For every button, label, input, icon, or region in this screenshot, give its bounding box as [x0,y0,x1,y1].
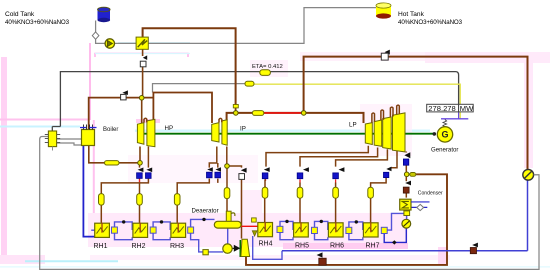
wire: hot salt header y=56.5 with right drop to circulating circle [304,57,528,170]
heater RH3 [171,223,186,238]
wire: node to feedpump turbine valve branch [227,166,242,168]
wire: HX bottom down through valve to steam node [142,50,144,57]
wire: LP extraction drops to RH4..RH7 (4) [264,199,266,223]
condenser C1 [400,199,430,215]
valve diamond V1 [92,32,99,39]
pink near turbines [136,119,160,123]
wire: LP extraction drops to RH4..RH7 (15) [370,199,372,223]
marker on RH7 drain U [392,240,397,244]
wire: hot reheat: HX top up right down to node 236 [143,28,236,105]
wire: crossover HP to IP at y=92.5 [153,93,212,124]
wire: boiler bottom loop to HP exhaust y=162.8 [89,146,140,163]
riser orifice RH3 [174,194,180,206]
wire: RH3 to deaerator [191,219,215,227]
wire: IP last stage to deaerator feed (2) [226,168,228,187]
svg-text:Deaerator: Deaerator [192,208,219,215]
riser orifice deaerator [224,188,230,199]
wire: signal ETA line (dark gray) from economizer up and right to MW display (2) [52,127,60,131]
valve on bottom brown line (dark red) [317,252,327,265]
wire: hot reheat: HX top up right down to node 236 (2) [235,108,237,111]
wire: deaerator to pump to RH3-side [227,228,229,244]
economizer block B1 [45,131,60,147]
svg-text:Condenser: Condenser [418,191,443,197]
heater RH7 [363,222,378,237]
heater RH6 [328,222,343,237]
wire: LP extraction drops to RH4..RH7 (11) [335,183,337,188]
wire: LP exhaust to condenser [405,152,407,153]
IP extraction valves [207,167,222,178]
wire: node to feedpump turbine valve branch (2) [241,180,243,239]
wire: green shaft [137,133,434,135]
sensor pill right of LP exhaust node [410,173,416,177]
wire: green shaft feedpump turbine [239,240,241,257]
wire: deaerator to pump to RH3-side (2) [191,233,223,252]
wire: IP extraction drops (4) [217,163,219,183]
svg-text:HP: HP [165,125,174,132]
feedpump turbine FPT [234,239,250,256]
wire: node down into HP stage1 [141,100,143,124]
wire: LP extraction drops to RH4..RH7 (7) [299,183,301,188]
cyan lines [0,126,80,128]
wire: purple feed train RH1-RH2-RH3 [91,229,95,231]
wire: purple feed train RH1-RH2-RH3 (2) [115,222,133,240]
svg-text:Generator: Generator [431,147,458,154]
svg-text:RH4: RH4 [259,241,273,248]
wire: HP extraction drops (5) [100,205,102,223]
svg-text:RH7: RH7 [366,243,380,250]
svg-text:MW: MW [460,104,474,113]
condenser inlet valve (dark red) [403,181,411,194]
svg-text:RH1: RH1 [94,243,108,250]
deaerator pump P2 [223,244,232,253]
wire: LP extraction drops to RH4..RH7 [266,146,368,167]
wire: IP last stage to deaerator feed (3) [226,199,228,212]
wire: condensate header y=250.8 (2) [477,250,528,252]
condensate pump P3 [402,219,411,228]
wire: purple electric line at generator (2) [458,112,460,119]
wire: LP extraction drops to RH4..RH7 (12) [335,199,337,223]
turbine IP [212,118,228,145]
wire: condenser small blue stubs [411,206,427,208]
wire: signal ETA line (dark gray) from economizer up and right to MW display [60,72,458,127]
svg-text:RH5: RH5 [295,243,309,250]
wire: LP extraction drops to RH4..RH7 (2) [264,179,267,187]
svg-text:RH6: RH6 [330,243,344,250]
wire: purple feed train RH4..RH7 (3) [349,222,363,240]
pink glow around hot salt line right [425,52,550,63]
wire: IP extraction drops [209,147,217,168]
valve FV2 on hot salt line [381,50,390,61]
wire: LP extraction drops to RH4..RH7 (14) [371,178,387,188]
pink haze behind RH row [88,213,408,247]
wire: measurement frame gray loop left/bottom/right [40,137,539,270]
cold tank T1 [98,7,111,22]
riser orifice RH5 [297,187,303,198]
small connector square on pump suction [203,250,208,255]
HP extraction valves Q1 Q2 [137,168,153,179]
svg-text:G: G [441,130,448,140]
wire: LP extraction drops to RH4..RH7 (10) [335,179,337,182]
wire: economizer to boiler gray links [57,139,82,145]
sensor pill S3 on admission line [252,111,263,116]
wire: condensate header y=250.8 [282,250,470,252]
pink horizontal upper-left [0,119,90,121]
riser orifice RH1 [99,194,105,206]
LP extraction valves RH4..RH6 [262,167,344,179]
wire: boiler steam header y=97.6 (2) [126,97,153,99]
riser orifice RH7 [368,187,374,198]
wire: signal yellow line from sensor2 to generator column [153,84,246,93]
svg-text:RH3: RH3 [170,243,184,250]
valve FV1 under HX [140,55,147,66]
RH7 extraction valve [384,167,392,178]
wire: IP extraction drops (2) [177,179,209,194]
deaerator D1 [214,211,241,228]
wire: HP extraction drops [139,163,141,168]
wire: HP extraction drops (2) [147,147,149,168]
wire: RH7 drain U to condensate pump [384,228,406,242]
wire: green shaft feedpump turbine (2) [232,247,235,249]
wire: boiler steam header y=97.6 [89,98,121,130]
condenser level diamond [417,204,424,210]
heater RH4 [258,222,273,237]
pink bracket under HX [95,53,188,57]
svg-text:278.278: 278.278 [428,104,455,113]
svg-text:ETA= 0.412: ETA= 0.412 [252,64,283,70]
wire: circulating circle down to header [527,180,529,251]
wire: cold tank down to diamond valve and pump (gray) [95,21,97,33]
riser orifice RH6 [333,187,339,198]
wire: purple feed train RH4..RH7 (2) [315,221,328,239]
wire: HP extraction drops (3) [139,179,141,183]
wire: signal yellow line from sensor2 to generator column (2) [254,84,460,119]
wire: LP extraction drops to RH4..RH7 (5) [300,148,378,167]
riser orifice RH2 [137,194,143,206]
svg-text:40%KNO3+60%NaNO3: 40%KNO3+60%NaNO3 [5,19,70,26]
wire: purple feed train RH4..RH7 [280,221,293,239]
svg-text:Boiler: Boiler [103,127,118,133]
svg-text:RH2: RH2 [132,243,146,250]
pink band under RH5-7 row [283,243,408,249]
wire: HP extraction drops (6) [139,182,141,193]
svg-text:Cold Tank: Cold Tank [5,11,35,18]
svg-text:IP: IP [240,126,246,133]
boiler B2 [53,125,97,151]
wire: condensate pump from condenser [406,216,408,220]
main steam valve FV3 [121,90,128,100]
pink column left edge [1,57,7,263]
wire: IP admission y=112.9 [227,113,364,123]
svg-text:40%KNO3+60%NaNO3: 40%KNO3+60%NaNO3 [398,19,463,26]
pump P1 (cold salt) [105,39,114,48]
wire: red drain deaerator to RH4 [241,225,258,227]
wire: purple electric line at generator [441,118,468,120]
svg-text:LP: LP [349,122,357,129]
wire: HX to hot tank (gray) [148,8,376,44]
node dots (yellow) [138,96,409,177]
small orifice on hot reheat vertical [233,105,238,108]
connector squares next to heaters [112,226,388,233]
wire: condenser bypass loop right [246,174,447,265]
junction dots on purple train [122,218,358,224]
wire: HP extraction drops (4) [101,179,148,194]
wire: IP extraction drops (3) [176,205,178,223]
heater RH1 [95,223,110,238]
feedpump-turbine admission valve (white) [239,168,247,180]
wire: LP extraction drops to RH4..RH7 (13) [391,151,397,168]
sensor pill S2 [245,81,254,86]
turbine LP (4 stages) [365,105,405,152]
wire: purple feed train RH1-RH2-RH3 (3) [153,222,170,240]
turbine HP [137,118,155,146]
pink bottom band [0,255,45,264]
reheater HX E1 [136,37,148,49]
wire: HP extraction drops (7) [139,205,141,223]
svg-text:Hot Tank: Hot Tank [398,11,425,18]
LP exhaust valve [403,152,410,165]
heater RH5 [294,222,309,237]
pink vertical x=89 [89,43,91,120]
valve on condensate header (dark red) [470,243,478,254]
sensor ETA pill S1 [260,70,271,76]
wire: LP extraction drops to RH4..RH7 (3) [264,179,266,187]
orifice OR1 on boiler-HP line [105,161,120,165]
wire: cold tank down to diamond valve and pump (gray) (2) [96,40,136,44]
wire: red overlay on admission line [254,112,302,114]
MW display box [427,104,474,112]
wire: RH7 riser to condenser bottom [387,213,404,230]
wire: LP exhaust to condenser (3) [405,177,407,181]
wire: LP extraction drops to RH4..RH7 (9) [336,149,388,166]
wire: LP extraction drops to RH4..RH7 (8) [299,199,301,223]
wire: LP exhaust to condenser (4) [405,193,407,197]
pink column right [524,60,533,168]
wire: LP exhaust to condenser (2) [405,165,407,172]
wire: IP last stage to deaerator feed [226,147,228,164]
generator G1 [433,120,453,143]
wire: LP extraction drops to RH4..RH7 (6) [299,179,301,182]
heater RH2 [133,223,148,238]
tiny items left of RH4 [252,218,257,222]
wire: boiler feedwater blue down and to RH1 [83,146,101,237]
riser orifice RH4 [262,187,268,198]
wire: HX bottom down through valve to steam node (2) [142,67,144,96]
circulating water machine M1 [523,169,539,180]
hot tank T2 [376,3,391,19]
wire: RH4 drain to header [253,236,282,259]
